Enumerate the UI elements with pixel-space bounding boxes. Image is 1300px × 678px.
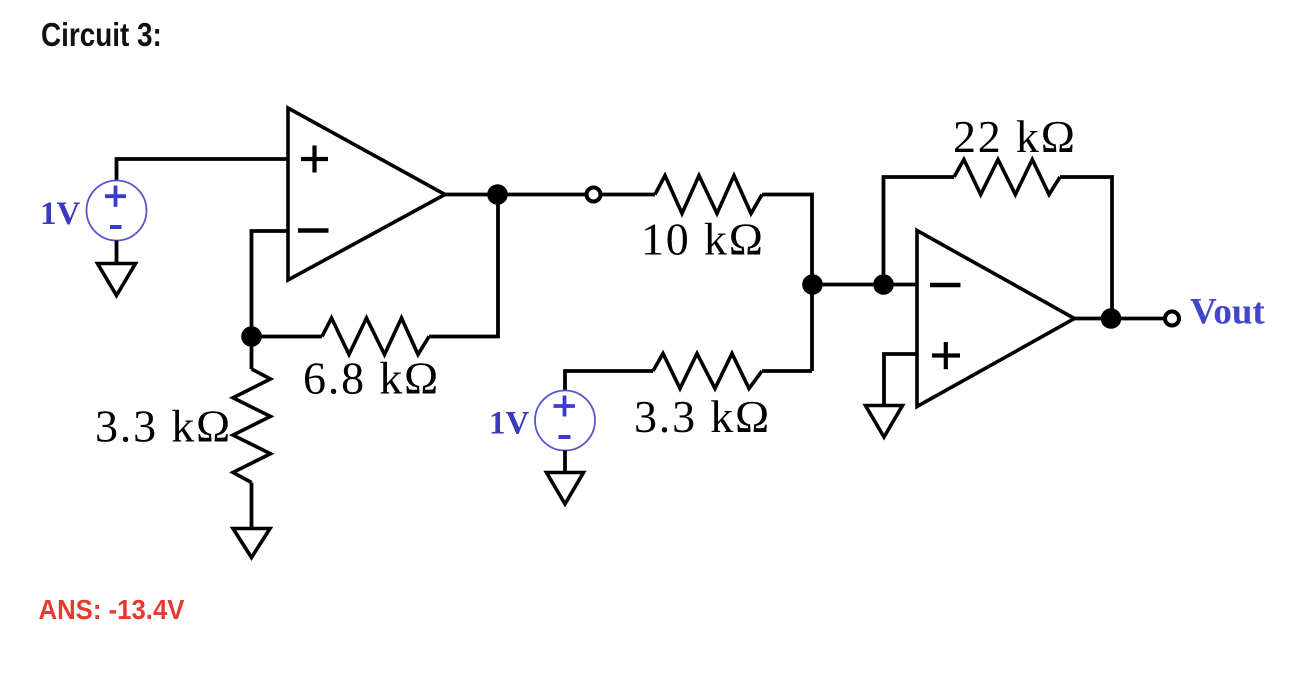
svg-text:Vout: Vout [1190, 292, 1265, 333]
node E junction dot (U2 output) [1101, 308, 1122, 329]
svg-text:1V: 1V [40, 196, 81, 232]
wire open terminal to resistor 10k [601, 193, 656, 197]
svg-text:6.8 kΩ: 6.8 kΩ [303, 353, 440, 404]
op-amp U1 plus input symbol [301, 146, 328, 173]
svg-text:10 kΩ: 10 kΩ [641, 214, 765, 265]
wire V2 to ground [563, 451, 567, 476]
wire 3.3k to ground [250, 483, 254, 531]
resistor 3.3 kOhm (vertical) [233, 369, 271, 483]
voltage source V1 circle [87, 181, 147, 241]
voltage source V1 plus mark [105, 186, 126, 207]
resistor 3.3 kOhm (middle) [653, 354, 762, 389]
ground under V1 [98, 264, 136, 296]
wire U2 plus input to ground [884, 354, 917, 407]
wire U1 minus input to node A [252, 231, 289, 369]
ground at U2 plus input [866, 406, 903, 438]
wire V2 to resistor 3.3k mid [565, 371, 653, 390]
wire node C to U2 minus input [812, 283, 917, 287]
svg-text:22 kΩ: 22 kΩ [953, 111, 1077, 162]
svg-text:ANS: -13.4V: ANS: -13.4V [39, 594, 185, 625]
wire U1 output [445, 193, 586, 197]
wire node A to resistor 6.8k [252, 335, 323, 339]
op-amp U2 plus input symbol [932, 342, 960, 369]
ground under 3.3k resistor [233, 529, 270, 558]
wire resistor 3.3k mid to node C vertical [762, 369, 812, 373]
voltage source V2 minus mark [559, 435, 571, 439]
ground under V2 [547, 473, 584, 505]
node D junction dot (feedback tap) [873, 274, 894, 295]
voltage source V1 minus mark [110, 225, 122, 229]
voltage source V2 plus mark [554, 396, 576, 417]
op-amp U1 minus input symbol [298, 228, 329, 233]
svg-text:1V: 1V [489, 406, 530, 442]
op-amp U2 [917, 231, 1075, 407]
open terminal node [587, 188, 601, 202]
node A junction dot [241, 326, 262, 347]
resistor 22 kOhm [954, 160, 1060, 195]
open terminal Vout [1165, 312, 1179, 326]
svg-text:Circuit 3:: Circuit 3: [41, 17, 162, 54]
wire resistor 10k to node C vertical [762, 195, 812, 372]
wire U2 output [1075, 317, 1165, 321]
resistor 10 kOhm [655, 176, 762, 214]
svg-text:3.3 kΩ: 3.3 kΩ [95, 401, 232, 452]
node B junction dot (U1 output) [487, 184, 508, 205]
op-amp U1 [288, 108, 445, 280]
wire feedback up from node D [884, 177, 955, 285]
wire resistor 22k down to U2 output [1060, 177, 1112, 319]
node C junction dot [802, 274, 823, 295]
svg-text:3.3 kΩ: 3.3 kΩ [634, 391, 771, 442]
op-amp U2 minus input symbol [930, 283, 961, 288]
wire V1 to ground [115, 241, 119, 266]
voltage source V2 circle [535, 391, 595, 451]
wire V1 to U1 plus input [117, 159, 289, 181]
wire resistor 6.8k up to U1 output node [429, 195, 498, 337]
resistor 6.8 kOhm [322, 318, 429, 355]
